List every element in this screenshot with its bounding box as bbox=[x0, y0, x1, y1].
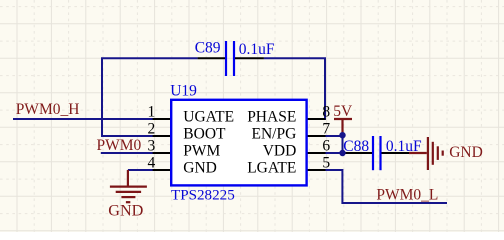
svg-text:GND: GND bbox=[449, 144, 483, 161]
svg-text:4: 4 bbox=[147, 154, 155, 171]
svg-text:EN/PG: EN/PG bbox=[252, 126, 297, 143]
svg-text:6: 6 bbox=[322, 137, 330, 154]
svg-text:BOOT: BOOT bbox=[183, 126, 226, 143]
svg-text:3: 3 bbox=[147, 137, 155, 154]
svg-text:0.1uF: 0.1uF bbox=[239, 41, 275, 58]
svg-text:7: 7 bbox=[322, 120, 330, 137]
svg-text:TPS28225: TPS28225 bbox=[171, 188, 235, 204]
svg-text:PWM0: PWM0 bbox=[97, 137, 142, 154]
svg-text:U19: U19 bbox=[170, 82, 197, 99]
svg-text:UGATE: UGATE bbox=[183, 109, 234, 126]
svg-text:C89: C89 bbox=[195, 39, 221, 56]
svg-text:LGATE: LGATE bbox=[247, 160, 296, 177]
svg-text:8: 8 bbox=[322, 103, 330, 120]
svg-text:PWM: PWM bbox=[183, 143, 220, 160]
svg-text:PHASE: PHASE bbox=[247, 109, 296, 126]
svg-text:C88: C88 bbox=[343, 138, 369, 155]
svg-text:PWM0_H: PWM0_H bbox=[16, 101, 80, 118]
svg-text:PWM0_L: PWM0_L bbox=[376, 187, 438, 204]
svg-text:5V: 5V bbox=[333, 103, 353, 120]
svg-text:GND: GND bbox=[108, 201, 143, 219]
svg-text:GND: GND bbox=[183, 160, 217, 177]
svg-text:VDD: VDD bbox=[263, 143, 297, 160]
svg-text:1: 1 bbox=[147, 103, 155, 120]
svg-text:2: 2 bbox=[147, 120, 155, 137]
svg-text:0.1uF: 0.1uF bbox=[386, 138, 422, 155]
svg-text:5: 5 bbox=[322, 154, 330, 171]
